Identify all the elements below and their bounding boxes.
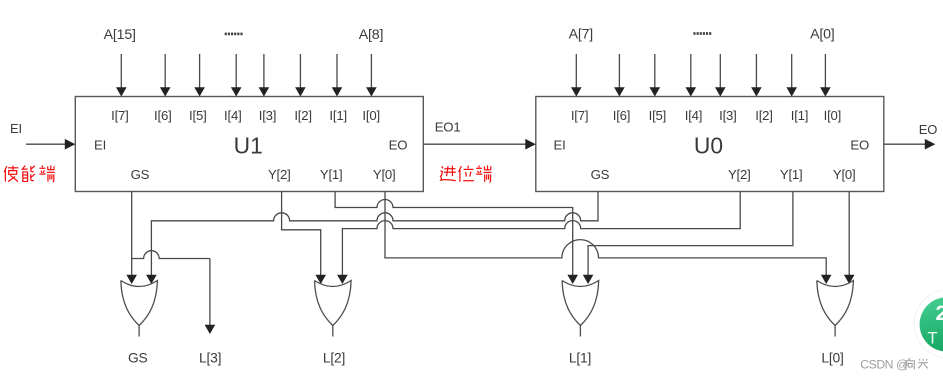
wire U0.Y[2] left to OR gate G2 input 2 with hops	[342, 192, 740, 276]
input arrow A[7] wire into U0 pin I[7]	[575, 54, 577, 89]
svg-text:I[0]: I[0]	[824, 108, 842, 123]
svg-text:I[2]: I[2]	[755, 108, 773, 123]
svg-text:GS: GS	[131, 167, 150, 182]
wire EO output arrow from U0.EO	[884, 143, 926, 145]
svg-text:U1: U1	[234, 132, 263, 158]
wire U0.GS left to OR gate G1 input 2 with hops over three verticals	[151, 192, 598, 276]
wire EO1 from U1.EO to U0.EI arrow	[423, 143, 527, 145]
encoder U0 (low byte 8-3 priority encoder) box	[536, 97, 884, 192]
svg-text:EO: EO	[919, 122, 937, 137]
wire U1.Y[2] to OR gate G2 input 1	[282, 192, 321, 276]
or-gate G3 (L[1] output)	[562, 281, 599, 326]
wire EI input arrow into U1.EI	[26, 143, 66, 145]
svg-text:Y[0]: Y[0]	[833, 167, 856, 182]
svg-text:I[4]: I[4]	[685, 108, 703, 123]
input arrow A[13] wire into U1 pin I[5]	[199, 54, 201, 89]
svg-text:L[3]: L[3]	[199, 351, 221, 366]
or-gate G4 (L[0] output)	[817, 281, 854, 326]
wire U0.Y[0] down to OR gate G4 input 2	[848, 192, 850, 276]
input arrow A[15] wire into U1 pin I[7]	[120, 54, 122, 89]
input arrow A[12] wire into U1 pin I[4]	[235, 54, 237, 89]
svg-text:L[1]: L[1]	[569, 351, 591, 366]
input arrow A[2] wire into U0 pin I[2]	[755, 54, 757, 89]
input arrow A[8] wire into U1 pin I[0]	[370, 54, 372, 89]
input arrow A[11] wire into U1 pin I[3]	[263, 54, 265, 89]
wire L[3] branch from node GS1, hop over G1 input wire, down to L[3] arrow	[132, 251, 210, 259]
svg-text:I[7]: I[7]	[111, 108, 129, 123]
svg-text:L[2]: L[2]	[323, 351, 345, 366]
svg-text:EO1: EO1	[435, 120, 461, 135]
svg-text:EO: EO	[389, 137, 408, 152]
svg-text:A[8]: A[8]	[359, 27, 383, 43]
svg-text:Y[0]: Y[0]	[373, 167, 396, 182]
svg-text:T: T	[927, 330, 937, 348]
svg-text:GS: GS	[128, 351, 148, 366]
svg-text:I[3]: I[3]	[259, 108, 277, 123]
input arrow A[14] wire into U1 pin I[6]	[164, 54, 166, 89]
svg-text:Y[1]: Y[1]	[320, 167, 343, 182]
svg-text:A[0]: A[0]	[810, 26, 834, 42]
svg-text:A[15]: A[15]	[104, 27, 136, 43]
input arrow A[5] wire into U0 pin I[5]	[654, 54, 656, 89]
or-gate G2 (L[2] output)	[315, 281, 352, 326]
svg-text:Y[2]: Y[2]	[268, 167, 291, 182]
encoder U1 (high byte 8-3 priority encoder) box	[75, 97, 423, 192]
floating badge green circle	[920, 297, 943, 351]
red annotation 进位端 (carry terminal)	[440, 166, 456, 181]
svg-text:A[7]: A[7]	[569, 26, 593, 42]
svg-text:I[1]: I[1]	[791, 108, 809, 123]
floating badge white ring	[914, 290, 943, 359]
wire U1.Y[0] right to OR gate G4 input 1 with wide hop over G3 inputs	[385, 192, 826, 276]
svg-text:EI: EI	[10, 121, 22, 136]
svg-text:I[0]: I[0]	[362, 108, 380, 123]
svg-text:I[5]: I[5]	[189, 108, 207, 123]
ellipsis dots between A[15] and A[8]	[225, 33, 227, 36]
svg-text:I[3]: I[3]	[719, 108, 737, 123]
watermark glyphs 向兴	[906, 358, 914, 370]
svg-text:I[4]: I[4]	[224, 108, 242, 123]
svg-text:2: 2	[936, 301, 943, 325]
input arrow A[0] wire into U0 pin I[0]	[824, 54, 826, 89]
wire U1.GS down to OR gate G1 input (node GS1)	[131, 192, 133, 276]
svg-text:I[5]: I[5]	[649, 108, 667, 123]
input arrow A[10] wire into U1 pin I[2]	[299, 54, 301, 89]
wire U0.Y[1] left to OR gate G3 input 2	[588, 192, 793, 276]
svg-text:L[0]: L[0]	[821, 351, 843, 366]
svg-text:CSDN @: CSDN @	[860, 358, 908, 372]
red annotation 使能端 (enable terminal)	[4, 166, 18, 182]
input arrow A[6] wire into U0 pin I[6]	[618, 54, 620, 89]
svg-text:U0: U0	[694, 132, 723, 158]
or-gate G1 (GS output)	[121, 281, 158, 326]
svg-text:Y[1]: Y[1]	[780, 167, 803, 182]
svg-text:EI: EI	[94, 137, 106, 152]
input arrow A[9] wire into U1 pin I[1]	[336, 54, 338, 89]
svg-text:I[2]: I[2]	[294, 108, 312, 123]
ellipsis dots between A[7] and A[0]	[693, 32, 695, 35]
svg-text:EI: EI	[553, 137, 565, 152]
svg-text:I[1]: I[1]	[329, 108, 347, 123]
svg-text:GS: GS	[591, 167, 610, 182]
input arrow A[1] wire into U0 pin I[1]	[791, 54, 793, 89]
input arrow A[3] wire into U0 pin I[3]	[719, 54, 721, 89]
wire U1.Y[1] right to OR gate G3 input 1 with hop over U1.Y[0] wire	[335, 192, 573, 276]
input arrow A[4] wire into U0 pin I[4]	[690, 54, 692, 89]
svg-text:I[6]: I[6]	[613, 108, 631, 123]
svg-text:EO: EO	[850, 137, 869, 152]
svg-text:I[7]: I[7]	[571, 108, 589, 123]
svg-text:Y[2]: Y[2]	[728, 167, 751, 182]
svg-text:I[6]: I[6]	[154, 108, 172, 123]
